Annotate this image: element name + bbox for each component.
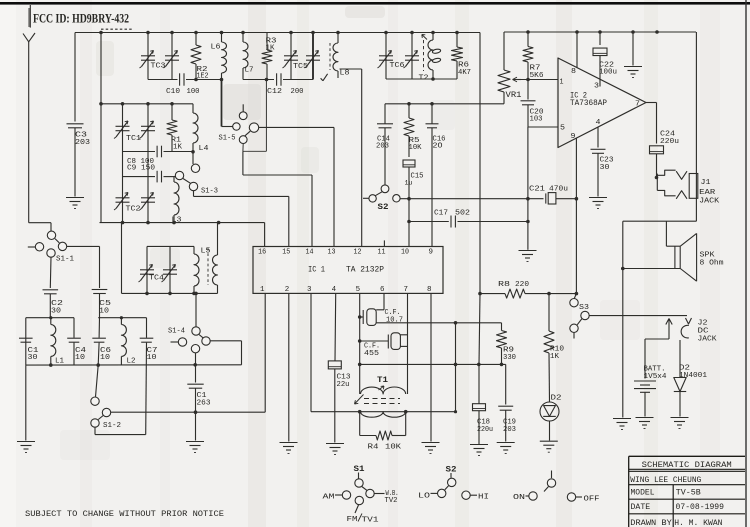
svg-text:7: 7	[404, 286, 409, 294]
svg-text:203: 203	[75, 139, 90, 147]
svg-text:L2: L2	[127, 357, 136, 365]
svg-text:9: 9	[429, 249, 434, 257]
svg-text:5: 5	[560, 125, 565, 133]
svg-text:TV2: TV2	[385, 497, 398, 505]
svg-text:IC 1: IC 1	[308, 266, 325, 275]
svg-text:8: 8	[571, 68, 576, 76]
svg-text:2: 2	[285, 286, 290, 294]
svg-text:DATE: DATE	[631, 503, 651, 512]
svg-text:TV1: TV1	[362, 517, 380, 525]
svg-text:30: 30	[600, 164, 610, 172]
svg-text:1V5x4: 1V5x4	[644, 373, 667, 381]
svg-text:22u: 22u	[337, 381, 350, 389]
svg-text:10.7: 10.7	[386, 317, 403, 325]
svg-text:EAR: EAR	[699, 189, 716, 197]
svg-text:TA 2132P: TA 2132P	[346, 266, 384, 275]
svg-text:4: 4	[596, 119, 601, 127]
svg-text:6: 6	[380, 286, 385, 294]
svg-text:455: 455	[364, 350, 379, 358]
svg-text:1K: 1K	[550, 353, 560, 361]
svg-text:H. M. KWAN: H. M. KWAN	[674, 519, 722, 527]
svg-text:L4: L4	[199, 145, 209, 153]
svg-text:203: 203	[376, 143, 389, 151]
svg-text:JACK: JACK	[698, 336, 717, 344]
svg-text:3: 3	[594, 83, 599, 91]
svg-text:5: 5	[356, 286, 361, 294]
svg-text:10K: 10K	[409, 144, 423, 152]
svg-text:15: 15	[282, 249, 290, 257]
svg-text:TC6: TC6	[390, 62, 405, 70]
svg-text:10: 10	[99, 308, 109, 316]
svg-text:FCC ID: HD9BRY-432: FCC ID: HD9BRY-432	[33, 11, 129, 25]
svg-text:30: 30	[51, 308, 61, 316]
svg-text:4K7: 4K7	[458, 69, 471, 77]
svg-text:10: 10	[75, 354, 85, 362]
svg-text:470u: 470u	[549, 186, 568, 194]
svg-text:2O: 2O	[433, 143, 443, 151]
svg-text:S1-2: S1-2	[103, 422, 121, 430]
svg-text:100u: 100u	[599, 69, 617, 77]
svg-text:AM: AM	[323, 494, 336, 502]
svg-text:8 Ohm: 8 Ohm	[700, 260, 724, 268]
svg-text:1K: 1K	[173, 144, 183, 152]
svg-text:J2: J2	[698, 320, 708, 328]
svg-text:200: 200	[291, 88, 304, 96]
svg-text:OFF: OFF	[584, 496, 601, 504]
svg-text:JACK: JACK	[699, 198, 719, 206]
svg-text:C10: C10	[166, 88, 180, 96]
svg-text:4: 4	[332, 286, 337, 294]
svg-text:3: 3	[307, 286, 312, 294]
svg-text:R8: R8	[498, 281, 511, 289]
svg-text:LO: LO	[418, 493, 431, 501]
svg-text:9: 9	[571, 133, 576, 141]
svg-text:ON: ON	[513, 494, 525, 502]
svg-text:S1-1: S1-1	[56, 256, 74, 264]
svg-text:L5: L5	[201, 248, 211, 256]
svg-text:S2: S2	[378, 203, 389, 212]
svg-text:SUBJECT TO CHANGE WITHOUT PRIO: SUBJECT TO CHANGE WITHOUT PRIOR NOTICE	[25, 509, 224, 519]
svg-text:10: 10	[401, 249, 409, 257]
svg-text:220u: 220u	[660, 138, 679, 146]
svg-text:S3: S3	[579, 304, 589, 312]
svg-text:L1: L1	[55, 357, 64, 365]
svg-text:WING LEE CHEUNG: WING LEE CHEUNG	[630, 475, 701, 485]
svg-text:502: 502	[455, 210, 470, 218]
svg-text:S1: S1	[354, 465, 365, 474]
svg-text:30: 30	[28, 354, 38, 362]
svg-text:L6: L6	[211, 44, 221, 52]
svg-text:TA7368AP: TA7368AP	[570, 99, 607, 108]
svg-text:11: 11	[378, 249, 386, 257]
svg-text:330: 330	[503, 354, 516, 362]
svg-text:07-08-1999: 07-08-1999	[676, 503, 725, 512]
svg-text:MODEL: MODEL	[631, 488, 655, 497]
svg-text:FM: FM	[347, 516, 359, 524]
svg-text:TV-5B: TV-5B	[676, 489, 701, 498]
svg-text:C17: C17	[434, 210, 448, 218]
svg-text:1: 1	[260, 286, 265, 294]
svg-text:S1-3: S1-3	[201, 188, 218, 196]
svg-text:220: 220	[515, 281, 529, 289]
svg-text:S1-5: S1-5	[219, 134, 236, 142]
svg-text:SPK: SPK	[700, 252, 715, 260]
svg-text:T1: T1	[377, 377, 388, 385]
svg-text:10: 10	[100, 354, 110, 362]
svg-text:TC2: TC2	[126, 206, 141, 214]
svg-text:263: 263	[197, 400, 211, 408]
svg-text:HI: HI	[478, 494, 489, 502]
svg-text:L8: L8	[340, 70, 350, 78]
svg-text:7: 7	[635, 101, 640, 109]
svg-text:DRAWN BY: DRAWN BY	[630, 519, 672, 527]
svg-text:100: 100	[187, 88, 200, 96]
svg-text:16: 16	[258, 249, 266, 257]
svg-text:L7: L7	[245, 67, 254, 75]
svg-text:D2: D2	[551, 395, 562, 403]
svg-text:TC3: TC3	[151, 63, 166, 71]
svg-text:DC: DC	[698, 328, 710, 336]
svg-text:SCHEMATIC DIAGRAM: SCHEMATIC DIAGRAM	[642, 460, 732, 470]
svg-text:S1-4: S1-4	[168, 328, 185, 336]
svg-text:10K: 10K	[385, 444, 402, 452]
svg-text:C9 150: C9 150	[127, 165, 155, 173]
svg-text:R4: R4	[368, 444, 380, 452]
svg-text:1N4001: 1N4001	[679, 372, 707, 380]
svg-text:12: 12	[354, 249, 362, 257]
svg-text:C21: C21	[529, 186, 546, 194]
svg-text:8: 8	[427, 286, 432, 294]
svg-text:103: 103	[530, 116, 543, 124]
svg-text:J1: J1	[701, 179, 711, 187]
svg-text:C12: C12	[267, 88, 282, 96]
svg-text:VR1: VR1	[506, 92, 522, 100]
svg-text:1u: 1u	[405, 179, 413, 187]
svg-text:203: 203	[503, 426, 516, 434]
svg-text:13: 13	[328, 249, 336, 257]
svg-text:220u: 220u	[477, 426, 493, 434]
svg-text:10: 10	[147, 354, 157, 362]
svg-text:5K6: 5K6	[530, 72, 544, 80]
svg-text:1: 1	[560, 79, 564, 87]
svg-text:14: 14	[306, 249, 314, 257]
svg-text:TC1: TC1	[126, 135, 141, 143]
